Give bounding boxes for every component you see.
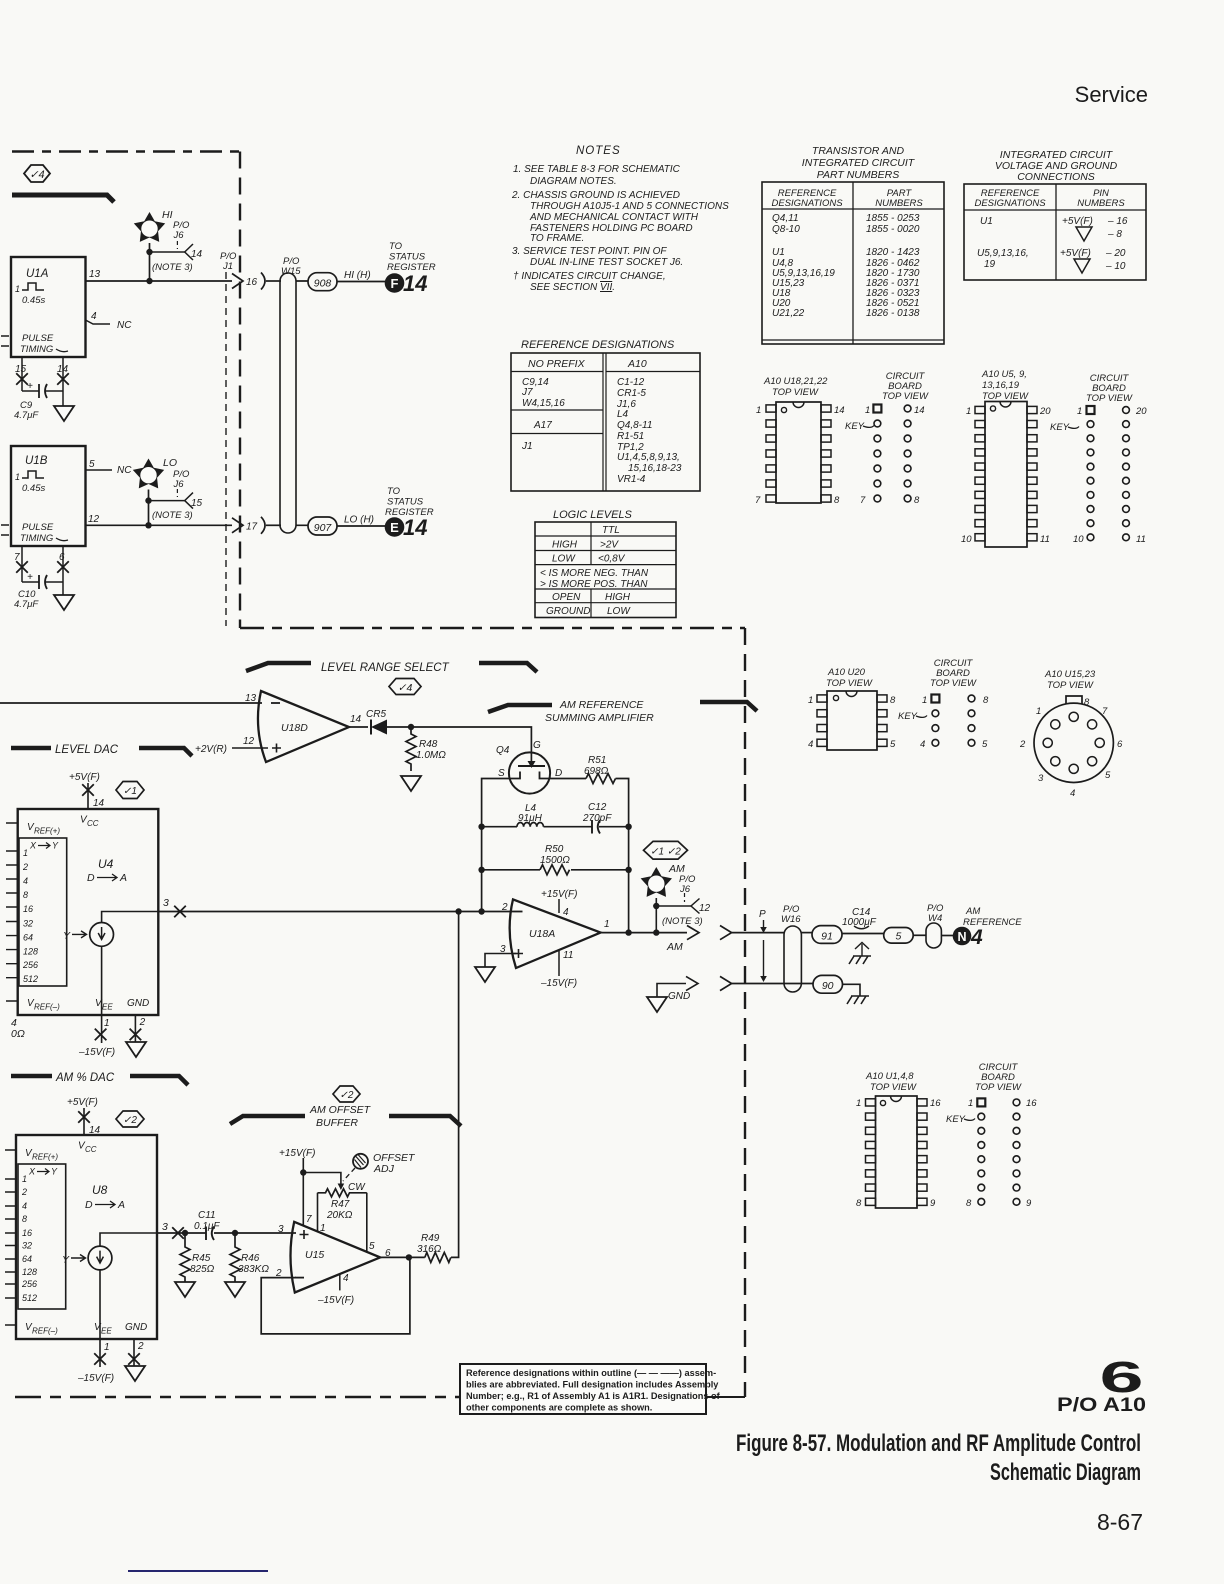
- svg-text:64: 64: [22, 1254, 32, 1264]
- node hexagon adj2: [116, 1111, 144, 1127]
- resistor R49 316ohm: [417, 1233, 451, 1262]
- svg-text:PULSE: PULSE: [22, 333, 54, 344]
- label level range select bracket: [246, 662, 537, 674]
- svg-text:Y: Y: [52, 841, 59, 851]
- svg-text:A10 U18,21,22: A10 U18,21,22: [763, 376, 828, 387]
- svg-text:REF(+): REF(+): [34, 827, 60, 836]
- op-amp U15: [275, 1222, 391, 1293]
- svg-text:N: N: [957, 930, 966, 944]
- svg-text:R48: R48: [419, 739, 438, 750]
- svg-text:R49: R49: [421, 1233, 440, 1244]
- connector P/O J6 pin 12: [656, 874, 710, 914]
- svg-text:11: 11: [563, 950, 573, 961]
- svg-text:10: 10: [961, 534, 972, 545]
- svg-text:R51: R51: [588, 755, 606, 766]
- node output junction: [406, 1254, 412, 1260]
- svg-text:2: 2: [137, 1341, 144, 1352]
- svg-text:LEVEL RANGE SELECT: LEVEL RANGE SELECT: [321, 662, 450, 674]
- op-amp U18A: [500, 899, 610, 968]
- svg-text:A17: A17: [533, 420, 552, 431]
- svg-text:+5V(F): +5V(F): [69, 772, 100, 783]
- svg-text:TOP VIEW: TOP VIEW: [1047, 680, 1094, 691]
- svg-text:–15V(F): –15V(F): [317, 1295, 354, 1306]
- svg-text:4: 4: [970, 926, 983, 949]
- wire into U15 plus: [290, 1232, 296, 1234]
- svg-text:J6: J6: [173, 230, 185, 241]
- chassis stub under C14: [849, 943, 871, 965]
- heavy bus stub upper left: [12, 195, 114, 202]
- wire U15 output to R49: [380, 1256, 425, 1258]
- svg-text:1: 1: [320, 1223, 326, 1234]
- pin 14 output wire: [349, 726, 368, 728]
- svg-text:TOP VIEW: TOP VIEW: [1086, 393, 1133, 404]
- svg-text:16: 16: [246, 277, 258, 288]
- svg-text:R1-51: R1-51: [617, 431, 644, 442]
- svg-text:U18D: U18D: [281, 722, 308, 734]
- svg-text:1820 - 1423: 1820 - 1423: [866, 247, 920, 258]
- pin 11 -15V stub: [540, 950, 577, 989]
- svg-text:R50: R50: [545, 844, 564, 855]
- ground source for GND row: [647, 976, 698, 1012]
- svg-text:U18A: U18A: [529, 928, 555, 940]
- wire number oval 5: [884, 928, 926, 944]
- node J4 hexagon mid: [389, 679, 421, 695]
- svg-text:U8: U8: [92, 1183, 108, 1197]
- svg-text:2. CHASSIS GROUND IS ACHIEVE: 2. CHASSIS GROUND IS ACHIEVED: [511, 190, 680, 201]
- svg-text:U1: U1: [980, 216, 993, 227]
- svg-text:REGISTER: REGISTER: [387, 262, 436, 273]
- svg-text:20: 20: [1135, 406, 1147, 417]
- svg-text:✓4: ✓4: [29, 169, 44, 181]
- svg-text:Number; e.g., R1 of Assembly A: Number; e.g., R1 of Assembly A1 is A1R1.…: [466, 1391, 721, 1401]
- power +5V(F) U4: [69, 772, 105, 809]
- resistor R46 383Kohm: [225, 1233, 269, 1297]
- svg-text:Q4: Q4: [496, 745, 510, 756]
- svg-text:W4: W4: [928, 913, 942, 924]
- svg-text:14: 14: [914, 405, 925, 416]
- svg-text:STATUS: STATUS: [389, 252, 426, 263]
- DAC U4 block: [18, 809, 159, 1015]
- svg-text:8-67: 8-67: [1097, 1509, 1143, 1535]
- svg-text:Q4,11: Q4,11: [772, 213, 799, 224]
- svg-text:4.7μF: 4.7μF: [14, 410, 39, 421]
- svg-text:INTEGRATED CIRCUIT: INTEGRATED CIRCUIT: [802, 157, 916, 169]
- svg-text:A: A: [117, 1199, 125, 1211]
- test point star LO: [133, 457, 177, 488]
- U8 input stubs: [5, 1150, 16, 1325]
- svg-text:2: 2: [22, 862, 28, 872]
- wire number oval 90: [813, 975, 843, 993]
- wire pin13 to connector: [86, 280, 233, 282]
- svg-text:EE: EE: [101, 1327, 112, 1336]
- svg-text:(NOTE 3): (NOTE 3): [662, 916, 703, 927]
- svg-text:16: 16: [22, 1228, 32, 1238]
- pin 4 NC stub: [86, 311, 133, 331]
- svg-text:256: 256: [22, 960, 38, 970]
- svg-text:AM % DAC: AM % DAC: [55, 1072, 115, 1084]
- svg-text:14: 14: [834, 405, 845, 416]
- svg-text:1500Ω: 1500Ω: [540, 855, 570, 866]
- svg-text:9: 9: [1026, 1198, 1032, 1209]
- svg-text:13,16,19: 13,16,19: [982, 380, 1020, 391]
- svg-text:+: +: [27, 572, 33, 583]
- svg-text:TOP VIEW: TOP VIEW: [930, 678, 977, 689]
- svg-text:† INDICATES CIRCUIT CHANGE,: † INDICATES CIRCUIT CHANGE,: [513, 271, 666, 282]
- IC U1B pulse timing block: [11, 446, 86, 546]
- svg-text:8: 8: [890, 695, 896, 706]
- svg-text:1: 1: [968, 1098, 973, 1109]
- svg-text:2: 2: [21, 1187, 27, 1197]
- svg-text:EE: EE: [102, 1003, 113, 1012]
- svg-text:1. SEE TABLE 8-3 FOR SCHEMATI: 1. SEE TABLE 8-3 FOR SCHEMATIC: [513, 164, 681, 175]
- svg-text:316Ω: 316Ω: [417, 1244, 442, 1255]
- wire U15 feedback loop: [261, 1257, 410, 1334]
- svg-text:LOW: LOW: [607, 606, 631, 617]
- svg-text:128: 128: [22, 1267, 37, 1277]
- wire star to output: [655, 898, 657, 933]
- svg-text:698Ω: 698Ω: [584, 766, 609, 777]
- wire AM to cable: [732, 932, 784, 934]
- svg-text:Q4,8-11: Q4,8-11: [617, 420, 652, 431]
- svg-text:U15: U15: [305, 1249, 324, 1261]
- node branch dot: [653, 903, 659, 909]
- svg-text:DUAL IN-LINE TEST SOCKET J6.: DUAL IN-LINE TEST SOCKET J6.: [530, 257, 683, 268]
- ground under C9: [54, 406, 74, 421]
- svg-text:SUMMING AMPLIFIER: SUMMING AMPLIFIER: [545, 712, 654, 724]
- svg-text:3. SERVICE TEST POINT. PIN OF: 3. SERVICE TEST POINT. PIN OF: [512, 246, 667, 257]
- svg-text:U21,22: U21,22: [772, 308, 805, 319]
- svg-text:A10 U15,23: A10 U15,23: [1044, 669, 1096, 680]
- svg-text:1: 1: [756, 405, 761, 416]
- svg-text:W16: W16: [781, 914, 801, 925]
- svg-text:DESIGNATIONS: DESIGNATIONS: [771, 198, 843, 209]
- node hexagon adj 1 2: [644, 841, 688, 859]
- svg-text:Q8-10: Q8-10: [772, 224, 800, 235]
- svg-text:SEE SECTION VII.: SEE SECTION VII.: [530, 282, 615, 293]
- pair marker P: [759, 909, 767, 982]
- svg-text:5: 5: [890, 739, 896, 750]
- wire L4 C12 rail: [482, 826, 629, 828]
- svg-text:16: 16: [1026, 1098, 1037, 1109]
- svg-text:U1,4,5,8,9,13,: U1,4,5,8,9,13,: [617, 452, 680, 463]
- ground under C10: [54, 595, 74, 610]
- svg-text:CW: CW: [348, 1182, 366, 1193]
- svg-text:825Ω: 825Ω: [190, 1264, 215, 1275]
- svg-text:0.1μF: 0.1μF: [194, 1221, 220, 1232]
- ground U18A pin3: [475, 967, 495, 982]
- svg-text:TOP VIEW: TOP VIEW: [870, 1082, 917, 1093]
- svg-text:4: 4: [22, 1201, 27, 1211]
- diode CR5: [366, 709, 411, 735]
- svg-text:AM: AM: [666, 941, 683, 953]
- wire oval 907 row: [296, 524, 385, 527]
- svg-text:1: 1: [104, 1342, 110, 1353]
- svg-text:J6: J6: [679, 884, 691, 895]
- svg-text:KEY: KEY: [898, 711, 918, 722]
- svg-text:8: 8: [966, 1198, 972, 1209]
- cable P/O W4: [926, 903, 953, 948]
- wire R50 rail: [482, 869, 629, 871]
- svg-text:7: 7: [306, 1214, 312, 1225]
- power +5V(F) U8: [67, 1097, 101, 1136]
- svg-text:14: 14: [350, 714, 362, 725]
- circuit board pads U20: [898, 658, 989, 750]
- label to status register HI: [387, 241, 436, 273]
- svg-text:KEY: KEY: [845, 421, 865, 432]
- svg-text:GND: GND: [668, 991, 690, 1002]
- circuit board pads U5,9,13,16,19: [1050, 373, 1147, 545]
- svg-text:15: 15: [191, 498, 203, 509]
- svg-text:1: 1: [865, 405, 870, 416]
- svg-text:NC: NC: [117, 465, 132, 476]
- svg-text:LEVEL DAC: LEVEL DAC: [55, 744, 119, 756]
- svg-text:5: 5: [895, 931, 901, 943]
- svg-text:1: 1: [856, 1098, 861, 1109]
- svg-text:REF(–): REF(–): [34, 1003, 60, 1012]
- connector receive AM: [720, 926, 732, 940]
- destination N4 AM reference: [953, 906, 1023, 949]
- svg-text:< IS MORE NEG. THAN: < IS MORE NEG. THAN: [540, 568, 649, 579]
- svg-text:19: 19: [984, 259, 996, 270]
- svg-text:AND MECHANICAL CONTACT WITH: AND MECHANICAL CONTACT WITH: [529, 212, 699, 223]
- svg-text:1: 1: [1036, 706, 1041, 717]
- svg-text:L4: L4: [617, 409, 629, 420]
- pin 4 +15V stub: [541, 889, 577, 918]
- cable P/O W16: [781, 904, 801, 992]
- svg-text:TO: TO: [387, 486, 401, 497]
- label AM offset buffer bracket: [230, 1104, 461, 1129]
- svg-text:TOP VIEW: TOP VIEW: [975, 1082, 1022, 1093]
- svg-text:ADJ: ADJ: [373, 1163, 395, 1175]
- svg-text:other components are complete: other components are complete as shown.: [466, 1403, 652, 1413]
- svg-text:NUMBERS: NUMBERS: [1077, 198, 1125, 209]
- svg-text:TOP VIEW: TOP VIEW: [826, 678, 873, 689]
- node junction HI main: [146, 278, 152, 284]
- label AM reference summing amplifier: [488, 699, 757, 724]
- resistor R48 1.0Mohm: [406, 727, 446, 771]
- svg-text:LO: LO: [163, 457, 177, 469]
- svg-text:128: 128: [23, 947, 38, 957]
- svg-text:7: 7: [860, 495, 866, 506]
- offset adjust symbol: [343, 1152, 416, 1181]
- svg-text:–15V(F): –15V(F): [540, 978, 577, 989]
- svg-text:AM: AM: [965, 906, 980, 917]
- pin2 gnd under U4: [126, 1015, 146, 1057]
- svg-text:THROUGH A10J5-1 AND 5 CONNECTI: THROUGH A10J5-1 AND 5 CONNECTIONS: [530, 201, 729, 212]
- assembly boundary right vertical: [744, 628, 746, 1397]
- svg-text:DIAGRAM NOTES.: DIAGRAM NOTES.: [530, 176, 617, 187]
- svg-text:AM REFERENCE: AM REFERENCE: [559, 699, 644, 711]
- svg-text:32: 32: [22, 1241, 32, 1251]
- cut resistor label bottom left: [11, 1017, 25, 1040]
- svg-text:AM OFFSET: AM OFFSET: [309, 1104, 372, 1116]
- node left rail junction: [478, 908, 484, 914]
- svg-text:A: A: [119, 872, 127, 884]
- svg-text:7: 7: [1102, 706, 1108, 717]
- svg-text:5: 5: [89, 459, 95, 470]
- resistor R50 1500ohm: [540, 844, 570, 875]
- capacitor C14 callout: [842, 907, 884, 934]
- svg-text:TO: TO: [389, 241, 403, 252]
- svg-text:–15V(F): –15V(F): [77, 1373, 114, 1384]
- assembly boundary left vertical: [239, 152, 241, 629]
- svg-text:– 16: – 16: [1107, 216, 1128, 227]
- svg-text:CR1-5: CR1-5: [617, 388, 646, 399]
- svg-text:1: 1: [1077, 406, 1082, 417]
- svg-text:REFERENCE: REFERENCE: [963, 917, 1022, 928]
- svg-text:U4: U4: [98, 857, 114, 871]
- svg-text:TOP VIEW: TOP VIEW: [982, 391, 1029, 402]
- svg-text:A10 U1,4,8: A10 U1,4,8: [865, 1071, 914, 1082]
- svg-text:TOP VIEW: TOP VIEW: [882, 391, 929, 402]
- svg-text:STATUS: STATUS: [387, 497, 424, 508]
- svg-text:13: 13: [89, 269, 101, 280]
- svg-text:1: 1: [922, 695, 927, 706]
- svg-text:OPEN: OPEN: [552, 592, 581, 603]
- svg-text:BUFFER: BUFFER: [316, 1117, 358, 1129]
- svg-text:Service: Service: [1075, 82, 1148, 107]
- circuit board pads U1,4,8: [946, 1062, 1037, 1209]
- wire R51 to right rail: [616, 779, 629, 933]
- wire number oval 908: [308, 273, 337, 291]
- svg-text:7: 7: [755, 495, 761, 506]
- wire Q4 drain to R51: [550, 778, 586, 780]
- svg-text:G: G: [533, 740, 541, 751]
- capacitor C12 270pF: [582, 802, 612, 834]
- wire pin3 to ground: [485, 954, 517, 968]
- node junction LO main: [145, 522, 151, 528]
- svg-text:1: 1: [22, 1174, 27, 1184]
- svg-text:TIMING: TIMING: [20, 533, 53, 544]
- node junction R46: [232, 1230, 238, 1236]
- test X on U4 out: [174, 906, 186, 918]
- wire GND to oval 90: [732, 983, 813, 985]
- svg-text:0.45s: 0.45s: [22, 295, 45, 306]
- svg-text:+5V(F): +5V(F): [1060, 248, 1091, 259]
- svg-text:>2V: >2V: [600, 540, 619, 551]
- svg-text:17: 17: [246, 522, 258, 533]
- svg-text:NUMBERS: NUMBERS: [875, 198, 923, 209]
- svg-text:8: 8: [856, 1198, 862, 1209]
- svg-text:> IS MORE POS. THAN: > IS MORE POS. THAN: [540, 579, 648, 590]
- svg-text:HI (H): HI (H): [344, 270, 371, 281]
- svg-text:+2V(R): +2V(R): [195, 744, 227, 755]
- transistor Q4: [496, 740, 562, 794]
- svg-text:TO FRAME.: TO FRAME.: [530, 233, 584, 244]
- svg-text:4: 4: [920, 739, 925, 750]
- DAC U8 block: [16, 1135, 157, 1339]
- svg-text:1826 - 0138: 1826 - 0138: [866, 308, 920, 319]
- svg-text:C1-12: C1-12: [617, 377, 645, 388]
- svg-text:X: X: [29, 841, 37, 851]
- svg-text:W4,15,16: W4,15,16: [522, 398, 565, 409]
- svg-text:GROUND: GROUND: [546, 606, 590, 617]
- svg-text:C11: C11: [198, 1210, 216, 1221]
- svg-text:3: 3: [163, 897, 169, 909]
- wire oval 908 row: [296, 280, 385, 283]
- svg-text:+: +: [27, 381, 33, 392]
- svg-text:TOP VIEW: TOP VIEW: [772, 387, 819, 398]
- destination F14: [385, 271, 428, 296]
- svg-text:4: 4: [1070, 788, 1075, 799]
- svg-text:512: 512: [23, 974, 38, 984]
- svg-text:8: 8: [983, 695, 989, 706]
- svg-text:1: 1: [15, 284, 20, 294]
- svg-text:J6: J6: [173, 479, 185, 490]
- svg-text:12: 12: [699, 903, 711, 914]
- svg-text:KEY: KEY: [946, 1114, 966, 1125]
- IC U1A pulse timing block: [11, 257, 86, 357]
- svg-text:R46: R46: [241, 1253, 260, 1264]
- svg-text:512: 512: [22, 1293, 37, 1303]
- wire number oval 91: [801, 926, 842, 944]
- svg-text:1000μF: 1000μF: [842, 917, 877, 928]
- connector P/O J6 pin 14: [173, 220, 203, 260]
- svg-text:HIGH: HIGH: [605, 592, 631, 603]
- svg-text:REF(+): REF(+): [32, 1153, 58, 1162]
- svg-text:14: 14: [93, 798, 105, 809]
- svg-text:R45: R45: [192, 1253, 211, 1264]
- svg-text:383KΩ: 383KΩ: [238, 1264, 269, 1275]
- svg-text:(NOTE 3): (NOTE 3): [152, 510, 193, 521]
- svg-text:9: 9: [930, 1198, 936, 1209]
- svg-text:LO (H): LO (H): [344, 515, 374, 526]
- wire Q4 source to left rail: [482, 779, 510, 912]
- svg-text:F: F: [391, 276, 399, 291]
- svg-text:VR1-4: VR1-4: [617, 474, 646, 485]
- cable P/O W15: [280, 256, 301, 533]
- svg-text:2: 2: [139, 1017, 146, 1028]
- svg-text:REF(–): REF(–): [32, 1327, 58, 1336]
- svg-text:+5V(F): +5V(F): [67, 1097, 98, 1108]
- svg-text:3: 3: [162, 1221, 168, 1233]
- wire note box right link: [706, 1396, 745, 1398]
- svg-text:DESIGNATIONS: DESIGNATIONS: [974, 198, 1046, 209]
- svg-text:J1: J1: [521, 441, 533, 452]
- svg-text:LOW: LOW: [552, 554, 576, 565]
- svg-text:PART NUMBERS: PART NUMBERS: [817, 169, 899, 181]
- reference note box: [460, 1364, 721, 1414]
- svg-text:REGISTER: REGISTER: [385, 507, 434, 518]
- svg-text:NO PREFIX: NO PREFIX: [528, 358, 586, 370]
- svg-text:4: 4: [91, 311, 97, 322]
- wire into U18D pin13: [0, 702, 262, 704]
- svg-text:1: 1: [104, 1018, 110, 1029]
- pin 12 wire to connector: [86, 524, 233, 526]
- svg-text:(NOTE 3): (NOTE 3): [152, 262, 193, 273]
- wire star LO stem: [148, 490, 150, 526]
- svg-text:12: 12: [243, 736, 255, 747]
- node junction R48: [408, 724, 414, 730]
- svg-text:✓1 ✓2: ✓1 ✓2: [650, 847, 681, 858]
- svg-text:90: 90: [822, 980, 834, 992]
- wire branch to J6-14: [150, 251, 185, 253]
- svg-text:GND: GND: [127, 998, 149, 1009]
- svg-text:NC: NC: [117, 320, 132, 331]
- test point star HI: [134, 209, 173, 242]
- node junction R45: [182, 1230, 188, 1236]
- svg-text:16: 16: [930, 1098, 941, 1109]
- svg-text:–15V(F): –15V(F): [78, 1047, 115, 1058]
- svg-text:HIGH: HIGH: [552, 540, 578, 551]
- svg-text:✓4: ✓4: [398, 682, 413, 694]
- svg-text:4: 4: [343, 1273, 349, 1284]
- svg-text:12: 12: [88, 514, 100, 525]
- svg-text:– 10: – 10: [1105, 261, 1126, 272]
- wire junction to Q4 gate: [411, 727, 531, 752]
- svg-text:908: 908: [314, 278, 332, 290]
- svg-text:256: 256: [21, 1279, 37, 1289]
